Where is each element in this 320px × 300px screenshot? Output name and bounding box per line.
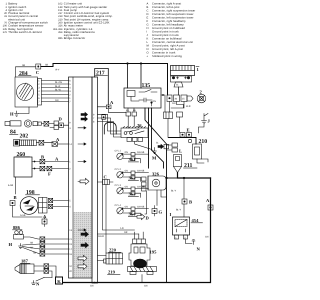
component 195 top cells [133,239,146,244]
svg-text:SB: SB [22,64,26,67]
217 inner pin column line [72,77,74,278]
svg-text:CYL.2: CYL.2 [115,168,122,171]
wire labels 284 to 217 [55,81,62,102]
svg-text:Throttle switch LH-Jetronic: Throttle switch LH-Jetronic [8,31,43,34]
label J [208,119,211,124]
svg-text:BL-W: BL-W [55,88,62,91]
svg-text:886: 886 [13,225,21,230]
wires below ignition strip [170,102,185,113]
svg-text:363: 363 [129,192,137,197]
component box c [177,112,183,117]
wires 886 to connectors [24,237,69,239]
control unit 217 connector strip [92,77,98,283]
svg-text:CYL.4: CYL.4 [115,204,122,207]
label 195 [150,250,158,255]
wire J to left [199,125,205,134]
wire relay to box a [161,95,165,112]
wire 284 to connector C [16,67,36,77]
svg-text:B: B [189,200,192,205]
svg-text:SB: SB [45,64,49,67]
svg-text:GN: GN [144,285,148,288]
svg-text:GN: GN [125,186,129,189]
wire 454 to ground N2 [186,239,193,244]
svg-text:E: E [187,128,190,133]
svg-text:454: 454 [58,31,63,34]
connector O symbol [188,139,191,142]
svg-text:GN: GN [153,100,157,103]
wire 211 left [167,177,178,179]
wire 195 to bottom bus [141,275,143,283]
connector L column [167,143,178,152]
connector A3 [42,219,47,224]
326 connector boxes [142,177,147,181]
label N1 [36,282,40,287]
bridge connector 886 [14,231,24,239]
fat arrow D [137,214,145,220]
label 26 [137,123,142,128]
wires ground H2 fan [23,244,69,254]
svg-text:454: 454 [192,218,200,223]
wire from B3 down to pump [13,206,43,218]
svg-text:SB: SB [33,251,37,254]
label 220 [109,248,117,253]
svg-text:R-Y: R-Y [56,69,60,72]
label M [152,156,157,161]
svg-text:886: 886 [58,37,63,40]
injector 364 [117,207,149,217]
svg-text:187: 187 [21,259,29,264]
label H2 [9,242,13,247]
ground N1 [32,278,53,285]
connector E row [180,133,192,138]
fuel pump 198 body [20,197,38,215]
label 187 [21,259,29,264]
cable boot loop [104,122,116,134]
svg-text:176: 176 [3,31,8,34]
217 fat arrows filled [81,232,89,237]
svg-text:BL-R: BL-R [55,85,61,88]
svg-text:I: I [170,212,172,217]
217 pin numbers left edge [69,80,72,274]
connector D pair [50,121,69,130]
legend column 1 [3,3,49,34]
connector A4 [106,105,111,109]
svg-text:Soldered point in wiring: Soldered point in wiring [152,55,182,58]
label 84 [10,130,16,136]
label 211 [184,163,192,169]
svg-text:195: 195 [150,250,158,255]
label B3 [14,195,17,200]
svg-text:C: C [104,175,107,180]
label A3 [43,214,47,219]
label 198 [26,190,35,196]
ground J [202,114,209,124]
label A1 [56,137,60,142]
connector F on 260 [40,166,45,171]
svg-text:M: M [152,156,157,161]
svg-text:284: 284 [19,71,28,77]
svg-text:BL-Y: BL-Y [176,209,182,212]
throttle switch 84 [5,120,54,127]
relay 135 internals [127,90,157,107]
svg-text:CYL.1: CYL.1 [115,150,122,153]
wire down to 454 [183,178,185,199]
ground M [153,148,157,154]
label 210 [199,139,208,145]
legend column 3 [147,3,196,59]
wires 284 pins to control unit [42,80,69,82]
label 284 [19,71,28,77]
component box a [164,112,173,119]
label 2 [200,90,203,95]
label E [187,128,190,133]
wire 26 to ground M [135,142,152,150]
198 output connectors [49,198,69,208]
svg-text:G: G [159,210,163,215]
wires into relay top [128,64,142,89]
label 260 [17,152,26,158]
svg-text:W-R: W-R [186,105,191,108]
260 output wires [32,162,69,169]
wires strip to 220 [98,256,107,261]
svg-text:BL-Y: BL-Y [171,190,177,193]
label 202 [20,134,29,140]
svg-text:GN-SB: GN-SB [137,151,145,154]
wire down from 260 [15,177,17,194]
wire battery to strip [178,87,180,95]
svg-text:198: 198 [26,190,35,196]
thick wire through E [169,138,197,145]
svg-text:GR: GR [124,231,128,234]
454 pins [175,235,179,239]
svg-text:362: 362 [129,176,137,181]
svg-text:220: 220 [109,248,117,253]
svg-text:H: H [9,242,13,247]
connector K [56,277,63,284]
label 1 [197,67,200,72]
lambda sensor 187 [15,264,44,274]
svg-text:SB: SB [30,246,34,249]
connectors right of H2 [40,237,45,241]
test point 220 [104,253,123,264]
svg-text:CYL.3: CYL.3 [115,184,122,187]
svg-text:F: F [48,172,51,177]
label 361 [115,150,145,163]
label 219 [108,270,116,275]
component 195 body [129,244,150,266]
terminal block 20/31 [171,76,192,82]
ground N2 [192,240,195,245]
thick wire from 211 to right bus [178,173,211,179]
top wire from C to ignition switch [41,64,168,96]
wire C2 down to test point 220 [105,185,107,254]
relay 454 [173,217,190,235]
svg-text:GN-R: GN-R [98,235,104,238]
small connector pair left of boot [102,115,106,120]
injector 363 [117,187,149,197]
control unit 217 main box [69,77,93,278]
svg-text:84: 84 [10,130,16,136]
connector B on 260 [40,159,45,164]
ignition coil 211 [174,155,182,173]
wire from strip to 195 [98,120,139,235]
throttle switch 26 [121,127,148,138]
fat arrow at 181 (to C) [80,178,89,184]
svg-text:GN-SB: GN-SB [137,170,145,173]
217 strip bottom to bus [94,282,96,283]
connector A5 on right bus [208,205,213,210]
217 fat arrows open [78,255,87,261]
bottom ground bus [63,178,211,283]
label D [59,117,63,122]
label 364 [115,204,145,217]
label A4 [110,100,114,105]
halftone shading lower part of 217 [73,212,91,278]
label L [179,149,182,154]
svg-text:B: B [41,154,44,159]
ground H1 [15,107,30,116]
wires from boxes down [168,117,180,138]
svg-text:260: 260 [17,152,26,158]
diagonal bus to right vertical [145,108,167,282]
svg-text:K: K [57,279,61,284]
wires 326 down [145,190,167,214]
label H1 [10,112,14,117]
label 135 [142,83,151,89]
diagonal bus 2 [152,150,164,168]
svg-text:S-SB: S-SB [20,214,26,217]
underline 284 [19,75,32,77]
wires down to 195 [135,232,144,239]
terminal trapezoid [174,82,183,87]
label F [48,172,51,177]
svg-text:1-R: 1-R [120,227,124,230]
ground H2 [19,244,23,249]
label 363 [115,184,145,197]
connector G [152,209,157,214]
label 362 [115,168,145,181]
svg-text:361: 361 [129,157,137,162]
instrument cluster 284 [15,77,42,107]
legend column 2 [53,3,113,41]
relay 135 [124,88,161,108]
195 base bar [128,267,157,275]
svg-text:219: 219 [108,270,116,275]
svg-text:GN-SB: GN-SB [137,206,145,209]
svg-text:BL-GN: BL-GN [55,81,62,84]
svg-text:B: B [14,195,17,200]
label A2 [55,156,59,161]
svg-text:26: 26 [137,123,142,128]
svg-text:GN: GN [125,206,129,209]
air mass meter 326 [148,176,166,190]
relay pin stubs [126,109,136,112]
26 connector row [127,138,143,142]
fat arrows at 113.5/117.5 [81,112,88,116]
svg-text:202: 202 [20,134,29,140]
connector with arrow 31 [156,142,159,145]
label 454 [192,218,200,223]
187 connectors [44,264,49,268]
label 886 [13,225,21,230]
injector 362 [117,171,149,181]
underline 217 [96,74,108,76]
control unit 217 label [96,71,105,77]
svg-text:SB: SB [30,241,34,244]
svg-text:364: 364 [129,212,137,217]
connector C2 [103,180,110,185]
label D2 [146,216,150,221]
wire from 217 strip top to connector A4 [95,69,109,106]
pin numbers 284 [38,80,40,104]
svg-text:GN: GN [205,236,209,239]
label G [159,210,163,215]
connector C box [36,64,41,69]
connector B4 [182,199,187,204]
bus wires down from relay [149,108,152,168]
connector B3 box [10,201,15,206]
svg-text:H: H [10,112,14,117]
label C [36,70,39,75]
195 dark mass [134,259,147,268]
svg-text:GN: GN [90,285,94,288]
battery 1 [171,66,195,76]
injector 361 [117,153,149,163]
svg-text:C: C [36,70,39,75]
svg-text:GN: GN [172,102,176,105]
connector A1 [52,142,69,147]
svg-text:GN: GN [125,170,129,173]
svg-text:326: 326 [152,172,160,177]
wires 217 strip to throttle switch 26 [98,114,122,137]
relay bottom connector boxes [126,112,131,116]
component 210 [193,144,209,163]
ignition switch 2 symbol [197,94,206,103]
idle valve 202 [14,140,53,147]
svg-text:L: L [179,149,182,154]
svg-text:135: 135 [142,83,151,89]
217 internal arrows [78,127,86,232]
ignition control unit 260 [14,157,32,177]
label 326 [152,172,160,177]
198 connector block [39,198,48,214]
svg-text:217: 217 [96,71,105,77]
ignition switch terminal strip [167,95,193,102]
svg-text:Bridge connector: Bridge connector [64,37,86,40]
svg-text:GN: GN [125,151,129,154]
label C2 [104,175,107,180]
svg-text:6-SB: 6-SB [8,184,14,187]
label SB wire [22,64,26,67]
svg-text:GN: GN [55,99,59,102]
label B [41,154,44,159]
